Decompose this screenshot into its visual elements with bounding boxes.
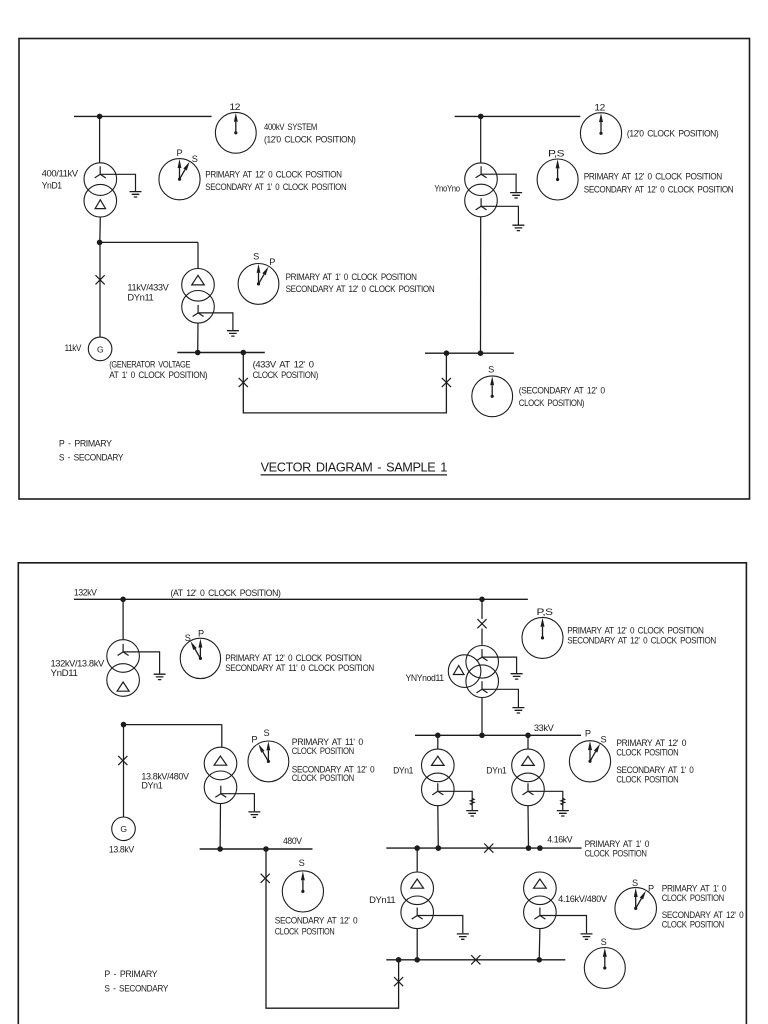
svg-text:VECTOR DIAGRAM - SAMPLE 1: VECTOR DIAGRAM - SAMPLE 1 xyxy=(261,461,448,475)
bus 400kV right xyxy=(455,115,581,117)
svg-text:SECONDARY AT 11' 0 CLOCK POSIT: SECONDARY AT 11' 0 CLOCK POSITION xyxy=(225,663,374,673)
transformer T8 DYn11 xyxy=(401,872,434,929)
svg-text:DYn1: DYn1 xyxy=(486,766,506,776)
svg-text:S: S xyxy=(601,735,607,745)
svg-text:DYn11: DYn11 xyxy=(369,895,395,905)
svg-text:(12'0 CLOCK POSITION): (12'0 CLOCK POSITION) xyxy=(627,128,719,138)
wire to generator G2 xyxy=(123,725,125,818)
ground T9 secondary neutral xyxy=(540,916,593,940)
disconnect X on generator feeder xyxy=(96,275,105,284)
disconnect X below 480V bus xyxy=(261,874,270,883)
svg-text:DYn1: DYn1 xyxy=(393,766,413,776)
svg-text:(12'0 CLOCK POSITION): (12'0 CLOCK POSITION) xyxy=(264,135,356,145)
clock dial S secondary 480V xyxy=(282,871,323,912)
clock dial P,S for T6 xyxy=(522,617,563,658)
svg-text:4.16kV/480V: 4.16kV/480V xyxy=(558,894,608,904)
wire 4.16kV bus to T8 xyxy=(416,848,418,872)
svg-text:P - PRIMARY: P - PRIMARY xyxy=(59,438,112,448)
wire T1 to 11kV node xyxy=(99,217,102,242)
svg-text:YnD11: YnD11 xyxy=(51,668,78,678)
svg-text:11kV/433V: 11kV/433V xyxy=(127,282,169,292)
wire 132kV bus to T6 with X xyxy=(481,599,483,645)
svg-text:CLOCK POSITION: CLOCK POSITION xyxy=(275,926,335,936)
clock dial S-P for T9 xyxy=(615,888,657,930)
bus 433V xyxy=(177,352,264,354)
junction node tie on right bus xyxy=(444,350,450,356)
svg-text:(SECONDARY AT 12' 0: (SECONDARY AT 12' 0 xyxy=(519,385,605,395)
label 13.8kV/480V DYn1 xyxy=(141,772,189,791)
svg-text:P,S: P,S xyxy=(548,149,564,159)
svg-text:SECONDARY AT 12' 0 CLOCK POSIT: SECONDARY AT 12' 0 CLOCK POSITION xyxy=(286,284,435,294)
svg-text:13.8kV: 13.8kV xyxy=(109,844,135,854)
tie wire 433V bus to right bus xyxy=(243,353,446,413)
svg-text:S: S xyxy=(601,937,607,947)
svg-text:(433V AT 12' 0: (433V AT 12' 0 xyxy=(253,359,314,369)
wire 400kV right bus to T3 xyxy=(480,116,482,162)
bus 480V xyxy=(200,848,313,850)
transformer U1 400/11kV YnD1 xyxy=(84,163,117,217)
bus secondary right xyxy=(425,352,514,354)
svg-text:PRIMARY AT 1' 0 CLOCK POSITION: PRIMARY AT 1' 0 CLOCK POSITION xyxy=(286,272,417,282)
svg-text:CLOCK POSITION: CLOCK POSITION xyxy=(292,773,354,783)
text generator voltage note xyxy=(109,359,207,379)
text 433V at 12 note xyxy=(253,359,319,379)
junction node on 400kV bus xyxy=(97,114,103,120)
title VECTOR DIAGRAM - SAMPLE 1 xyxy=(261,461,448,475)
svg-text:P,S: P,S xyxy=(537,607,553,617)
label 132kV/13.8kV YnD11 xyxy=(51,659,106,678)
svg-text:G: G xyxy=(120,824,127,834)
junction nodes on bottom bus xyxy=(396,957,542,963)
ground T5 secondary neutral xyxy=(221,794,261,818)
svg-text:PRIMARY AT 1' 0: PRIMARY AT 1' 0 xyxy=(662,884,727,894)
junction node on right 400kV bus xyxy=(478,114,484,120)
svg-text:S: S xyxy=(632,878,638,888)
svg-text:S - SECONDARY: S - SECONDARY xyxy=(104,983,168,993)
svg-text:P: P xyxy=(269,257,275,267)
transformer T9 4.16kV/480V xyxy=(524,872,557,929)
junction node T3 on right bus xyxy=(478,350,484,356)
clock dial S-P for T2 xyxy=(238,264,279,305)
wire 132kV bus to T4 xyxy=(122,599,124,640)
svg-text:S: S xyxy=(253,251,259,261)
transformer T7a DYn1 xyxy=(422,749,455,806)
svg-text:PRIMARY AT 12' 0: PRIMARY AT 12' 0 xyxy=(616,738,686,748)
disconnect X on generator feeder 13.8kV xyxy=(118,756,127,765)
svg-text:G: G xyxy=(97,344,104,354)
svg-text:132kV: 132kV xyxy=(74,587,98,597)
svg-text:11kV: 11kV xyxy=(65,343,83,353)
clock dial 12 (400kV system) xyxy=(215,112,256,153)
ground T8 secondary neutral xyxy=(417,916,469,940)
generator G 11kV xyxy=(88,337,112,361)
svg-text:S: S xyxy=(264,728,270,738)
svg-text:480V: 480V xyxy=(283,836,303,846)
svg-text:CLOCK POSITION: CLOCK POSITION xyxy=(585,849,647,859)
wire T5 to 480V bus xyxy=(219,804,221,849)
svg-text:PRIMARY AT 1' 0: PRIMARY AT 1' 0 xyxy=(585,839,650,849)
transformer T7b DYn1 xyxy=(512,749,545,806)
svg-text:(GENERATOR VOLTAGE: (GENERATOR VOLTAGE xyxy=(109,359,190,369)
svg-text:S: S xyxy=(488,364,494,374)
svg-text:S - SECONDARY: S - SECONDARY xyxy=(59,453,123,463)
junction node T7a on 33kV bus xyxy=(435,733,441,739)
ground T6 primary neutral xyxy=(482,657,523,679)
wire 11kV node to T2 xyxy=(100,242,198,268)
ground of T1 primary neutral xyxy=(100,174,141,197)
ground T4 primary neutral xyxy=(123,652,166,680)
label 11kV/433V DYn11 xyxy=(127,282,169,302)
svg-text:4.16kV: 4.16kV xyxy=(547,834,573,844)
junction node right on 132kV bus xyxy=(479,597,485,603)
junction node left on 132kV bus xyxy=(120,597,126,603)
clock dial S-P for T4 xyxy=(180,638,220,678)
svg-text:YnoYno: YnoYno xyxy=(434,184,460,194)
clock dial P-S for T7 xyxy=(569,741,610,782)
svg-text:PRIMARY AT 12' 0 CLOCK POSITIO: PRIMARY AT 12' 0 CLOCK POSITION xyxy=(567,626,703,636)
clock dial P,S for T3 xyxy=(537,159,578,200)
svg-text:33kV: 33kV xyxy=(534,723,555,733)
wire 13.8kV node to T5 xyxy=(124,725,222,748)
svg-text:YnD1: YnD1 xyxy=(42,180,62,190)
transformer T5 13.8kV/480V DYn1 xyxy=(204,747,237,803)
wire 33kV bus to T7b xyxy=(527,735,529,749)
bus 480V bottom xyxy=(386,959,565,961)
svg-text:400/11kV: 400/11kV xyxy=(42,168,79,178)
svg-text:CLOCK POSITION: CLOCK POSITION xyxy=(616,774,678,784)
junction node tie on 480V bus xyxy=(263,846,269,852)
wire T6 to 33kV bus xyxy=(481,697,483,735)
svg-text:P: P xyxy=(198,629,204,639)
clock dial P-S for T5 xyxy=(248,741,289,782)
ground T3 secondary neutral xyxy=(481,206,524,230)
clock dial P-S for T1 xyxy=(159,159,200,200)
svg-text:CLOCK POSITION: CLOCK POSITION xyxy=(616,748,678,758)
wire to generator xyxy=(99,242,101,337)
svg-text:P: P xyxy=(177,148,183,158)
bus 132kV xyxy=(74,598,528,600)
generator G 13.8kV xyxy=(112,817,136,841)
svg-text:SECONDARY AT 1' 0: SECONDARY AT 1' 0 xyxy=(616,765,693,775)
bus 400kV left xyxy=(74,115,212,117)
ground of T2 secondary neutral xyxy=(198,313,239,336)
svg-text:DYn11: DYn11 xyxy=(127,293,153,303)
svg-text:P: P xyxy=(585,729,591,739)
svg-text:P: P xyxy=(251,735,257,745)
wire T3 to right 433V bus xyxy=(480,217,482,353)
junction node tie on 433V bus xyxy=(241,350,247,356)
disconnect X left of tie xyxy=(239,378,248,387)
wires T8 T9 to bottom bus xyxy=(417,929,540,960)
svg-text:DYn1: DYn1 xyxy=(141,781,162,791)
svg-text:P: P xyxy=(648,884,654,894)
junction node T5 on 480V bus xyxy=(217,846,223,852)
junction node T6 on 33kV bus xyxy=(479,733,485,739)
transformer T4 132kV/13.8kV YnD11 xyxy=(107,640,140,697)
svg-text:SECONDARY AT 12' 0: SECONDARY AT 12' 0 xyxy=(662,910,744,920)
text secondary at 12 note right xyxy=(519,385,605,408)
bus 33kV xyxy=(415,734,581,736)
svg-text:SECONDARY AT 12' 0 CLOCK POSIT: SECONDARY AT 12' 0 CLOCK POSITION xyxy=(567,635,716,645)
transformer T3 YnoYno xyxy=(465,163,498,217)
svg-text:S: S xyxy=(299,858,305,868)
svg-text:CLOCK POSITION: CLOCK POSITION xyxy=(292,746,354,756)
svg-text:12: 12 xyxy=(230,102,241,112)
frame sample 2 xyxy=(18,563,746,1024)
ground T7b with link xyxy=(528,791,569,816)
svg-text:PRIMARY AT 12' 0 CLOCK POSITIO: PRIMARY AT 12' 0 CLOCK POSITION xyxy=(225,653,361,663)
clock dial 12 right xyxy=(580,113,621,154)
junction nodes on 4.16kV bus xyxy=(414,845,542,851)
svg-text:S: S xyxy=(192,154,198,164)
svg-text:CLOCK POSITION): CLOCK POSITION) xyxy=(253,370,319,380)
disconnect X T6 primary xyxy=(477,619,486,628)
disconnect X on right riser xyxy=(394,977,403,986)
disconnect X on 4.16kV bus xyxy=(484,844,493,853)
transformer T6 YNYnod11 three winding xyxy=(448,646,498,698)
ground T6 secondary neutral xyxy=(482,689,524,713)
bus 4.16kV xyxy=(386,847,581,849)
svg-text:YNYnod11: YNYnod11 xyxy=(406,673,444,683)
wire bus to transformer T1 xyxy=(99,116,101,162)
svg-text:PRIMARY AT 12' 0 CLOCK POSITIO: PRIMARY AT 12' 0 CLOCK POSITION xyxy=(584,171,722,181)
svg-text:P - PRIMARY: P - PRIMARY xyxy=(104,969,157,979)
junction node T2 on 433V bus xyxy=(195,350,201,356)
disconnect X right of tie xyxy=(442,378,451,387)
disconnect X on bottom bus xyxy=(471,955,480,964)
svg-text:(AT 12' 0 CLOCK POSITION): (AT 12' 0 CLOCK POSITION) xyxy=(171,588,281,598)
junction node T7b on 33kV bus xyxy=(525,733,531,739)
svg-text:AT 1' 0 CLOCK POSITION): AT 1' 0 CLOCK POSITION) xyxy=(109,370,207,380)
label 400/11kV YnD1 xyxy=(42,168,79,190)
frame sample 1 xyxy=(19,39,750,500)
svg-text:12: 12 xyxy=(594,102,605,112)
svg-text:CLOCK POSITION: CLOCK POSITION xyxy=(662,920,724,930)
svg-text:CLOCK POSITION: CLOCK POSITION xyxy=(662,893,724,903)
ground T3 primary neutral xyxy=(481,174,522,198)
clock dial S bottom xyxy=(584,948,625,989)
wires T7 to 4.16kV bus xyxy=(438,806,529,848)
svg-text:CLOCK POSITION): CLOCK POSITION) xyxy=(519,398,585,408)
transformer T2 11kV/433V DYn11 xyxy=(182,269,215,324)
svg-text:S: S xyxy=(185,633,191,643)
junction node 13.8kV xyxy=(121,722,127,728)
wire T2 to 433V bus xyxy=(197,323,199,352)
junction node 11kV xyxy=(97,240,103,246)
ground T7a with link xyxy=(438,791,478,816)
svg-text:SECONDARY AT 12' 0: SECONDARY AT 12' 0 xyxy=(275,915,358,925)
svg-text:SECONDARY AT 1' 0 CLOCK POSITI: SECONDARY AT 1' 0 CLOCK POSITION xyxy=(205,182,346,192)
svg-text:PRIMARY AT 12' 0 CLOCK POSITIO: PRIMARY AT 12' 0 CLOCK POSITION xyxy=(205,169,341,179)
tie wire 480V bus to 480V right bus xyxy=(266,849,399,1008)
svg-text:400kV SYSTEM: 400kV SYSTEM xyxy=(264,122,317,132)
clock dial S secondary right xyxy=(472,376,513,417)
wire 33kV bus to T7a xyxy=(437,735,439,749)
svg-text:SECONDARY AT 12' 0 CLOCK POSIT: SECONDARY AT 12' 0 CLOCK POSITION xyxy=(584,184,734,194)
